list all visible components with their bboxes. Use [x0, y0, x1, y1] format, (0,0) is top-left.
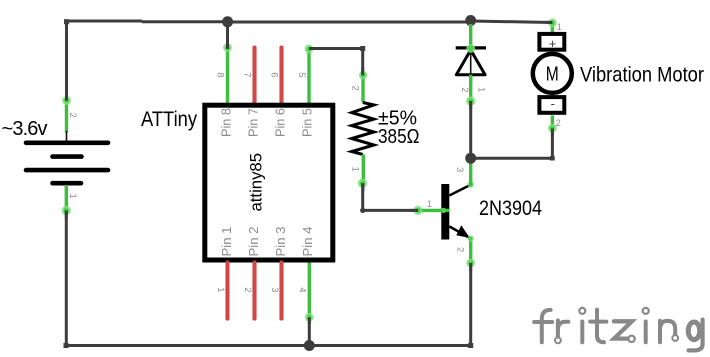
node: pin4 endpoint [305, 313, 314, 324]
svg-text:Pin 2: Pin 2 [246, 227, 261, 257]
node: base endpoint [413, 206, 422, 215]
node: emitter endpoint [466, 259, 475, 268]
wire: top rail junction B to motor [471, 21, 553, 23]
IC U1 ATTiny85 body [205, 105, 333, 260]
svg-text:2: 2 [556, 118, 561, 128]
wire: corner down to resistor [361, 49, 364, 76]
node: top-left corner square [64, 19, 69, 24]
svg-text:Pin 1: Pin 1 [219, 227, 234, 257]
node: bottom-left corner square [64, 343, 69, 348]
node: diode top blob [466, 44, 475, 53]
svg-text:+: + [549, 36, 557, 51]
diode D1 anode wire (green) from junction B [469, 24, 472, 50]
svg-text:Pin 7: Pin 7 [246, 108, 261, 137]
wire: motor bottom vertical [551, 128, 554, 158]
svg-text:6: 6 [269, 72, 280, 77]
wire overlays: dark wire ends drawn over green endpoint blobs [66, 22, 552, 271]
svg-text:3: 3 [269, 287, 280, 292]
wire: left rail down from top rail to battery [65, 21, 68, 101]
svg-text:5: 5 [296, 72, 307, 77]
wire: diode to junction C [469, 101, 472, 158]
wire: left rail battery to bottom rail [65, 211, 68, 346]
node: resistor top endpoint [359, 71, 367, 79]
svg-text:1: 1 [557, 22, 562, 32]
battery BT1 plates [26, 143, 108, 183]
node: battery pin 2 endpoint [62, 96, 71, 105]
IC pin 1 stub (red) [225, 263, 229, 319]
node: corner dot [360, 208, 365, 213]
wire: resistor down to corner [361, 183, 364, 210]
wire: junction C to motor bottom [471, 157, 553, 160]
wire: top rail from battery to junction A [67, 20, 228, 24]
svg-text:1: 1 [476, 87, 487, 92]
node: diode bottom endpoint [466, 96, 475, 105]
svg-text:1: 1 [350, 167, 361, 172]
transistor Q1 emitter line [449, 226, 470, 238]
svg-text:7: 7 [242, 72, 253, 77]
node: resistor bottom endpoint [358, 179, 367, 188]
wire: junction A down to IC pin 8 [226, 22, 229, 50]
motor M1 body circle [533, 54, 572, 93]
resistor R1 top lead (green) [361, 74, 364, 103]
svg-text:Pin 6: Pin 6 [273, 108, 288, 137]
diode D1 cathode bar [456, 46, 486, 49]
svg-text:2: 2 [67, 113, 78, 118]
svg-text:2: 2 [455, 247, 466, 252]
IC pin 4 lead (green) [308, 263, 311, 319]
svg-text:ATTiny: ATTiny [141, 108, 197, 131]
node: pin5 endpoint [305, 45, 314, 54]
IC pin 2 stub (red) [252, 263, 256, 319]
wire: corner to transistor base [363, 209, 419, 212]
svg-text:Pin 8: Pin 8 [219, 108, 234, 137]
IC pin 6 stub (red) [279, 48, 283, 104]
IC pin 3 stub (red) [279, 263, 283, 319]
svg-text:M: M [546, 64, 559, 86]
motor M1 top lead (green) [551, 23, 554, 35]
diode D1 inner lead [470, 50, 472, 75]
svg-text:1: 1 [215, 287, 226, 292]
diode D1 bottom lead (green) [469, 75, 472, 101]
svg-text:8: 8 [215, 72, 226, 77]
node: collector tip blob [468, 181, 474, 187]
svg-text:Pin 3: Pin 3 [273, 227, 288, 257]
svg-text:385Ω: 385Ω [378, 126, 420, 148]
svg-text:1: 1 [67, 194, 78, 199]
svg-text:3: 3 [454, 167, 465, 172]
svg-text:~3.6v: ~3.6v [2, 118, 48, 140]
svg-text:4: 4 [297, 287, 308, 292]
wire: bottom rail [65, 344, 471, 347]
transistor collector wire (green) [469, 162, 472, 187]
svg-text:-: - [551, 96, 555, 111]
svg-text:2: 2 [350, 86, 361, 91]
svg-text:2: 2 [242, 287, 253, 292]
motor M1 minus terminal box [539, 97, 564, 113]
wire: pin4 to bottom rail (dark) [308, 318, 311, 346]
node: wire corner square [360, 46, 365, 51]
IC pin 7 stub (red) [252, 48, 256, 104]
IC pin 8 lead (green) [226, 48, 229, 104]
wire: emitter down to bottom rail [469, 263, 472, 346]
node: pin8 endpoint [223, 43, 232, 52]
node: bottom-right corner square [468, 343, 473, 348]
svg-text:2N3904: 2N3904 [479, 197, 542, 220]
fritzing logo [534, 308, 702, 351]
transistor Q1 2N3904 base bar [441, 184, 449, 240]
transistor Q1 collector line [449, 185, 470, 196]
node: motor-bottom corner square [550, 156, 555, 161]
wire: top rail junction A to junction B [228, 21, 471, 24]
diode D1 triangle [456, 50, 485, 75]
junction D dot on bottom rail [304, 340, 315, 351]
junction A dot [222, 16, 233, 27]
node: battery pin 1 endpoint [62, 206, 71, 215]
transistor Q1 emitter arrow [456, 225, 470, 238]
wire: pin5 to resistor top horizontal [309, 47, 363, 50]
resistor R1 zigzag [352, 103, 374, 155]
motor M1 plus terminal box [539, 34, 564, 50]
transistor emitter wire (green) [469, 238, 472, 264]
node: motor bottom endpoint [548, 124, 557, 133]
svg-text:1: 1 [427, 199, 432, 209]
svg-text:Vibration Motor: Vibration Motor [580, 64, 704, 87]
node: base-bar contact (green overlay) [441, 208, 450, 213]
transistor Q1 base lead (green) [418, 209, 449, 212]
battery lead bottom (green) [65, 185, 68, 211]
IC pin 5 lead (green) [307, 49, 310, 103]
svg-text:Pin 5: Pin 5 [300, 108, 315, 137]
junction B dot [465, 15, 476, 26]
resistor R1 bottom lead (green) [362, 154, 365, 183]
battery lead top [66, 131, 68, 143]
svg-text:2: 2 [459, 87, 470, 92]
wire: green segment above battery [65, 99, 68, 133]
svg-text:attiny85: attiny85 [247, 153, 266, 212]
motor M1 bottom lead (green) [551, 116, 554, 129]
node: motor top endpoint [548, 18, 557, 27]
junction C dot [465, 153, 476, 164]
node: emitter tip blob [468, 235, 474, 241]
svg-text:Pin 4: Pin 4 [300, 227, 315, 257]
